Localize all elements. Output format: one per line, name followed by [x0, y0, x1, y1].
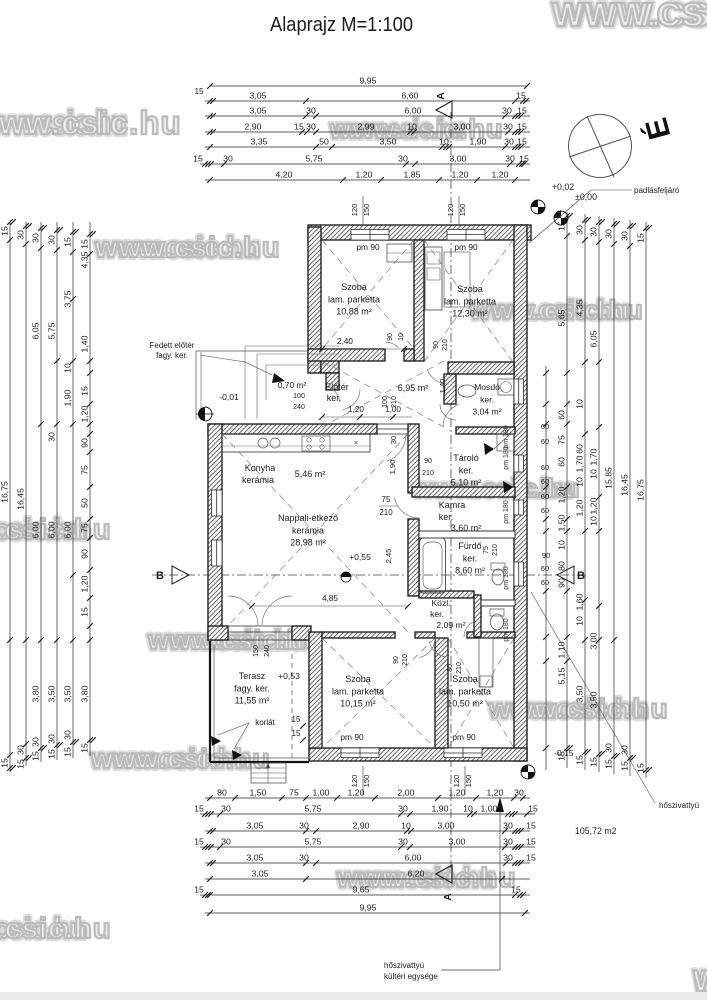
section B: [152, 574, 588, 576]
svg-text:60: 60: [541, 492, 549, 501]
svg-text:1,60: 1,60: [575, 593, 585, 610]
svg-text:5,75: 5,75: [305, 837, 322, 847]
svg-text:30: 30: [31, 737, 41, 747]
svg-text:2,00: 2,00: [398, 788, 415, 798]
svg-text:30: 30: [47, 734, 57, 744]
svg-text:3,00: 3,00: [589, 632, 599, 649]
svg-text:210: 210: [422, 470, 434, 477]
svg-text:10: 10: [589, 469, 599, 479]
svg-text:15: 15: [194, 837, 204, 847]
svg-text:pm 180: pm 180: [503, 500, 510, 523]
svg-text:pm 180: pm 180: [503, 618, 510, 641]
svg-text:120: 120: [452, 775, 461, 788]
svg-text:pm 180: pm 180: [503, 566, 510, 589]
tarolo boiler: [497, 434, 514, 451]
kitchen counter: [222, 434, 370, 452]
svg-text:ker.: ker.: [463, 553, 477, 563]
svg-text:B: B: [156, 570, 164, 582]
svg-text:pm 90: pm 90: [454, 242, 478, 252]
svg-text:Kamra: Kamra: [439, 500, 466, 510]
svg-text:1,20: 1,20: [575, 499, 585, 516]
svg-text:210: 210: [442, 339, 449, 351]
svg-text:+0,53: +0,53: [278, 671, 300, 681]
svg-text:30: 30: [398, 154, 408, 164]
svg-text:150: 150: [362, 775, 371, 788]
svg-text:120: 120: [350, 775, 359, 788]
svg-text:210: 210: [402, 654, 409, 666]
right dims: [545, 366, 547, 770]
svg-text:30: 30: [16, 745, 26, 755]
svg-text:Mosdó: Mosdó: [474, 382, 500, 392]
svg-text:15: 15: [517, 137, 527, 147]
svg-text:2,90: 2,90: [353, 821, 370, 831]
svg-text:5,65: 5,65: [557, 309, 567, 326]
svg-text:2,99: 2,99: [358, 122, 375, 132]
svg-text:15: 15: [517, 106, 527, 116]
svg-text:lam. parketta: lam. parketta: [444, 296, 496, 306]
svg-text:10: 10: [557, 540, 567, 550]
svg-text:3,05: 3,05: [247, 821, 264, 831]
svg-text:+0,02: +0,02: [552, 182, 574, 192]
svg-text:75: 75: [382, 495, 391, 504]
svg-text:Terasz: Terasz: [239, 671, 266, 681]
svg-text:30: 30: [502, 106, 512, 116]
svg-text:30: 30: [299, 821, 309, 831]
svg-text:lam. parketta: lam. parketta: [439, 686, 491, 696]
svg-text:10,15 m²: 10,15 m²: [340, 699, 376, 709]
left dims: [9, 222, 11, 772]
svg-text:10,88 m²: 10,88 m²: [336, 307, 372, 317]
svg-text:210: 210: [379, 508, 393, 517]
svg-text:10: 10: [575, 477, 585, 487]
svg-text:padlásfeljáró: padlásfeljáró: [634, 186, 680, 195]
svg-text:1,70: 1,70: [589, 448, 599, 465]
svg-text:4,85: 4,85: [322, 594, 338, 603]
svg-text:1,85: 1,85: [404, 170, 421, 180]
svg-text:www.csic.hu: www.csic.hu: [0, 913, 112, 945]
svg-text:+0,55: +0,55: [349, 552, 371, 562]
svg-text:3,50: 3,50: [575, 685, 585, 702]
svg-text:28,98 m²: 28,98 m²: [290, 538, 326, 548]
svg-text:3,05: 3,05: [252, 869, 269, 879]
svg-text:30: 30: [504, 137, 514, 147]
svg-text:90: 90: [557, 578, 567, 588]
svg-text:240: 240: [264, 645, 271, 657]
svg-text:fagy. ker.: fagy. ker.: [234, 683, 270, 693]
svg-text:WWW.CS: WWW.CS: [552, 0, 705, 33]
svg-text:30: 30: [221, 804, 231, 814]
plan walls: [308, 225, 531, 240]
svg-text:5,75: 5,75: [306, 154, 323, 164]
svg-text:15: 15: [636, 763, 646, 773]
svg-text:15: 15: [80, 239, 90, 249]
svg-text:150: 150: [253, 645, 260, 657]
svg-text:30: 30: [620, 231, 630, 241]
svg-text:15: 15: [80, 743, 90, 753]
svg-text:90: 90: [433, 341, 440, 349]
svg-text:15: 15: [80, 386, 90, 396]
bedroom1 cabinet: [387, 244, 412, 262]
svg-text:2,09 m²: 2,09 m²: [436, 620, 465, 630]
svg-text:3,75: 3,75: [63, 290, 73, 307]
svg-text:3,00: 3,00: [449, 837, 466, 847]
svg-text:75: 75: [80, 465, 90, 475]
svg-text:75: 75: [80, 523, 90, 533]
svg-text:60: 60: [541, 422, 549, 431]
level markers: [531, 200, 545, 214]
svg-text:4,20: 4,20: [276, 170, 293, 180]
svg-text:15: 15: [63, 747, 73, 757]
svg-text:6,00: 6,00: [63, 521, 73, 538]
svg-text:6,05: 6,05: [31, 322, 41, 339]
svg-text:100: 100: [382, 396, 389, 408]
svg-text:16,45: 16,45: [620, 474, 630, 496]
svg-text:15: 15: [511, 885, 521, 895]
bathtub: [420, 538, 446, 593]
svg-text:30: 30: [398, 837, 408, 847]
svg-text:4,35: 4,35: [80, 251, 90, 268]
bottom dims: [205, 797, 530, 799]
svg-text:60: 60: [541, 564, 549, 573]
svg-text:2,40: 2,40: [337, 337, 353, 346]
svg-text:www.csic.hu: www.csic.hu: [0, 104, 182, 141]
svg-text:30: 30: [16, 230, 26, 240]
svg-text:1,20: 1,20: [80, 405, 90, 422]
svg-text:30: 30: [389, 436, 398, 444]
svg-text:korlát: korlát: [255, 718, 275, 727]
svg-text:Tároló: Tároló: [453, 453, 479, 463]
svg-text:15: 15: [194, 87, 204, 96]
svg-text:15: 15: [526, 837, 536, 847]
svg-text:15: 15: [528, 804, 538, 814]
svg-text:30: 30: [503, 837, 513, 847]
svg-text:30: 30: [604, 743, 614, 753]
room diagonals: [322, 240, 414, 349]
svg-text:15: 15: [575, 755, 585, 765]
bedroom2 wardrobe: [425, 247, 442, 310]
svg-text:3,80: 3,80: [31, 685, 41, 702]
svg-text:10: 10: [575, 616, 585, 626]
svg-text:3,50: 3,50: [589, 691, 599, 708]
svg-text:1,20: 1,20: [452, 170, 469, 180]
svg-text:5,46 m²: 5,46 m²: [295, 469, 326, 479]
svg-text:1,00: 1,00: [481, 804, 498, 814]
svg-text:Konyha: Konyha: [245, 463, 276, 473]
svg-text:15: 15: [526, 821, 536, 831]
svg-text:30: 30: [47, 235, 57, 245]
svg-text:hőszivattyú: hőszivattyú: [659, 801, 699, 810]
svg-text:1,40: 1,40: [80, 335, 90, 352]
svg-text:A: A: [435, 92, 447, 100]
svg-text:1,90: 1,90: [388, 460, 397, 475]
svg-text:60: 60: [541, 578, 549, 587]
svg-text:4,35: 4,35: [575, 299, 585, 316]
svg-text:B: B: [577, 570, 585, 582]
svg-text:15: 15: [194, 804, 204, 814]
svg-text:5,10 m²: 5,10 m²: [451, 478, 482, 488]
svg-text:1,50: 1,50: [250, 788, 267, 798]
svg-text:15: 15: [589, 757, 599, 767]
svg-text:30: 30: [503, 821, 513, 831]
svg-text:30: 30: [306, 106, 316, 116]
svg-text:9,95: 9,95: [360, 903, 377, 913]
svg-text:pm 90: pm 90: [356, 242, 380, 252]
wc room toilet: [491, 614, 504, 630]
svg-text:30: 30: [503, 853, 513, 863]
svg-text:www.csic.hu: www.csic.hu: [94, 232, 281, 264]
svg-text:Fürdő: Fürdő: [459, 541, 482, 551]
svg-text:210: 210: [492, 544, 499, 556]
svg-text:30: 30: [63, 730, 73, 740]
svg-text:15: 15: [63, 237, 73, 247]
svg-text:30: 30: [398, 804, 408, 814]
svg-text:2,45: 2,45: [384, 549, 393, 564]
svg-text:30: 30: [620, 745, 630, 755]
svg-text:-0,01: -0,01: [219, 392, 239, 402]
svg-text:8,60 m²: 8,60 m²: [455, 566, 485, 576]
svg-text:1,20: 1,20: [348, 788, 365, 798]
svg-text:10: 10: [589, 516, 599, 526]
svg-text:1,90: 1,90: [432, 804, 449, 814]
svg-text:3,05: 3,05: [247, 853, 264, 863]
svg-text:3,05: 3,05: [250, 106, 267, 116]
svg-text:30: 30: [299, 853, 309, 863]
svg-text:1,20: 1,20: [348, 405, 364, 414]
svg-text:15: 15: [292, 729, 301, 738]
svg-text:3,80: 3,80: [80, 685, 90, 702]
svg-text:10,50 m²: 10,50 m²: [447, 699, 483, 709]
svg-text:50: 50: [80, 498, 90, 508]
svg-text:75: 75: [483, 546, 490, 554]
svg-text:150: 150: [362, 204, 371, 217]
svg-text:ker.: ker.: [459, 465, 474, 475]
svg-text:210: 210: [456, 662, 463, 674]
svg-text:3,00: 3,00: [438, 821, 455, 831]
svg-text:Előtér: Előtér: [325, 382, 349, 392]
svg-text:90: 90: [424, 458, 432, 465]
svg-text:60: 60: [541, 463, 549, 472]
svg-text:3,00: 3,00: [454, 122, 471, 132]
svg-text:3,60 m²: 3,60 m²: [451, 523, 482, 533]
svg-text:1,90: 1,90: [470, 137, 487, 147]
svg-text:30: 30: [221, 837, 231, 847]
svg-text:15: 15: [80, 607, 90, 617]
svg-text:80: 80: [217, 788, 227, 798]
svg-text:15: 15: [292, 715, 301, 724]
svg-text:1,20: 1,20: [557, 486, 567, 503]
svg-text:3,00: 3,00: [450, 154, 467, 164]
svg-text:1,00: 1,00: [313, 788, 330, 798]
svg-text:15: 15: [557, 221, 567, 231]
svg-text:3,05: 3,05: [250, 91, 267, 101]
svg-text:Nappali-étkező: Nappali-étkező: [278, 513, 338, 523]
svg-text:hőszivattyú: hőszivattyú: [384, 961, 424, 970]
svg-text:120: 120: [446, 204, 455, 217]
svg-text:ker.: ker.: [327, 393, 342, 403]
svg-text:90: 90: [80, 549, 90, 559]
svg-text:60: 60: [541, 506, 549, 515]
svg-text:15: 15: [636, 233, 646, 243]
svg-text:10: 10: [575, 399, 585, 409]
svg-text:150: 150: [464, 775, 473, 788]
svg-text:1,40: 1,40: [438, 379, 447, 394]
svg-text:5,15: 5,15: [557, 667, 567, 684]
svg-text:150: 150: [458, 204, 467, 217]
svg-text:3,35: 3,35: [251, 137, 268, 147]
svg-text:30: 30: [505, 154, 515, 164]
svg-text:6,00: 6,00: [31, 521, 41, 538]
svg-text:100: 100: [293, 393, 305, 400]
svg-text:A: A: [442, 893, 454, 901]
door swings: [385, 342, 398, 348]
svg-text:Fedett előtér: Fedett előtér: [150, 341, 195, 350]
svg-text:15: 15: [604, 759, 614, 769]
svg-text:30: 30: [223, 154, 233, 164]
svg-text:15: 15: [193, 154, 203, 164]
svg-text:kültéri egysége: kültéri egysége: [384, 972, 438, 981]
svg-text:1,20: 1,20: [356, 170, 373, 180]
svg-text:10: 10: [63, 363, 73, 373]
svg-text:75: 75: [289, 788, 299, 798]
svg-text:30: 30: [31, 233, 41, 243]
svg-text:1,50: 1,50: [557, 514, 567, 531]
svg-text:11,55 m²: 11,55 m²: [235, 696, 270, 706]
svg-text:5,75: 5,75: [47, 322, 57, 339]
svg-text:15: 15: [519, 154, 529, 164]
svg-text:1,20: 1,20: [449, 788, 466, 798]
svg-text:30: 30: [604, 229, 614, 239]
svg-text:15: 15: [620, 761, 630, 771]
svg-text:80: 80: [447, 664, 454, 672]
svg-text:120: 120: [350, 204, 359, 217]
svg-text:Szoba: Szoba: [452, 674, 478, 684]
svg-text:30: 30: [514, 788, 524, 798]
svg-text:60: 60: [541, 437, 549, 446]
wc in furdo: [492, 569, 504, 585]
svg-text:6,20: 6,20: [408, 869, 425, 879]
svg-text:pm 90: pm 90: [452, 732, 476, 742]
svg-text:0,70 m²: 0,70 m²: [278, 380, 307, 390]
north: [569, 115, 632, 178]
svg-text:15: 15: [294, 122, 304, 132]
svg-text:90: 90: [80, 438, 90, 448]
mosdo fixtures: [458, 385, 476, 397]
svg-text:210: 210: [391, 396, 398, 408]
svg-text:kerámia: kerámia: [292, 525, 324, 535]
svg-text:6,00: 6,00: [405, 106, 422, 116]
svg-text:30: 30: [589, 227, 599, 237]
svg-text:60: 60: [557, 457, 567, 467]
svg-text:10: 10: [398, 333, 405, 341]
svg-text:×: ×: [354, 440, 358, 447]
svg-text:80: 80: [557, 561, 567, 571]
svg-text:pm 90: pm 90: [340, 732, 364, 742]
svg-text:Szoba: Szoba: [341, 282, 367, 292]
svg-text:15: 15: [47, 749, 57, 759]
svg-text:30: 30: [306, 122, 316, 132]
svg-text:10: 10: [439, 137, 449, 147]
svg-text:Szoba: Szoba: [457, 284, 483, 294]
svg-text:1,20: 1,20: [589, 497, 599, 514]
svg-text:30: 30: [503, 122, 513, 132]
svg-text:ker.: ker.: [439, 512, 454, 522]
svg-text:105,72 m2: 105,72 m2: [575, 826, 617, 836]
svg-text:90: 90: [387, 333, 394, 341]
svg-text:16,75: 16,75: [636, 479, 646, 501]
svg-text:6,05: 6,05: [589, 330, 599, 347]
svg-text:1,70: 1,70: [575, 455, 585, 472]
svg-text:ker.: ker.: [430, 609, 444, 619]
svg-text:1,90: 1,90: [63, 389, 73, 406]
svg-text:16,75: 16,75: [0, 481, 10, 503]
svg-text:kerámia: kerámia: [242, 475, 274, 485]
svg-text:Közl.: Közl.: [431, 598, 450, 608]
svg-text:60: 60: [557, 410, 567, 420]
svg-text:9,95: 9,95: [360, 76, 377, 86]
svg-text:15: 15: [0, 758, 10, 768]
svg-text:1,20: 1,20: [487, 788, 504, 798]
svg-text:3,50: 3,50: [63, 685, 73, 702]
svg-text:1,20: 1,20: [80, 575, 90, 592]
svg-text:15: 15: [0, 226, 10, 236]
svg-text:30: 30: [47, 432, 57, 442]
svg-text:10: 10: [463, 804, 473, 814]
svg-text:5,75: 5,75: [305, 804, 322, 814]
top dims: [210, 85, 527, 87]
svg-text:10: 10: [401, 821, 411, 831]
svg-text:3,04 m²: 3,04 m²: [472, 407, 501, 417]
section A bottom: [436, 865, 452, 883]
szoba4 wardrobe: [479, 638, 493, 687]
svg-text:ker.: ker.: [480, 394, 494, 404]
svg-text:6,00: 6,00: [405, 853, 422, 863]
svg-text:www.csic.hu: www.csic.hu: [90, 743, 271, 774]
entry canopy: [196, 350, 308, 352]
svg-text:50: 50: [319, 137, 329, 147]
terrace: [209, 641, 211, 762]
svg-text:lam. parketta: lam. parketta: [332, 686, 384, 696]
svg-text:12,30 m²: 12,30 m²: [452, 309, 488, 319]
svg-text:16,45: 16,45: [16, 488, 26, 510]
svg-text:240: 240: [293, 404, 305, 411]
svg-text:15,85: 15,85: [604, 467, 614, 489]
svg-text:6,60: 6,60: [402, 91, 419, 101]
svg-text:15: 15: [16, 759, 26, 769]
svg-text:1,10: 1,10: [557, 641, 567, 658]
svg-text:15: 15: [31, 751, 41, 761]
svg-text:15: 15: [526, 853, 536, 863]
svg-text:2,90: 2,90: [245, 122, 262, 132]
svg-text:75: 75: [557, 435, 567, 445]
svg-text:1,20: 1,20: [492, 170, 509, 180]
svg-text:10: 10: [407, 122, 417, 132]
arrows tarolo: [484, 443, 494, 455]
svg-text:3,50: 3,50: [380, 137, 397, 147]
svg-text:Szoba: Szoba: [345, 674, 371, 684]
svg-text:30: 30: [575, 225, 585, 235]
svg-text:6,95 m²: 6,95 m²: [398, 383, 429, 393]
svg-text:90: 90: [393, 656, 400, 664]
svg-text:3,50: 3,50: [47, 685, 57, 702]
svg-text:15: 15: [517, 122, 527, 132]
svg-text:lam. parketta: lam. parketta: [328, 294, 380, 304]
svg-text:9,65: 9,65: [353, 885, 370, 895]
svg-text:6,00: 6,00: [47, 521, 57, 538]
svg-text:15: 15: [194, 885, 204, 895]
svg-text:15: 15: [557, 751, 567, 761]
svg-text:pm 180: pm 180: [503, 446, 510, 469]
svg-text:60: 60: [575, 444, 585, 454]
